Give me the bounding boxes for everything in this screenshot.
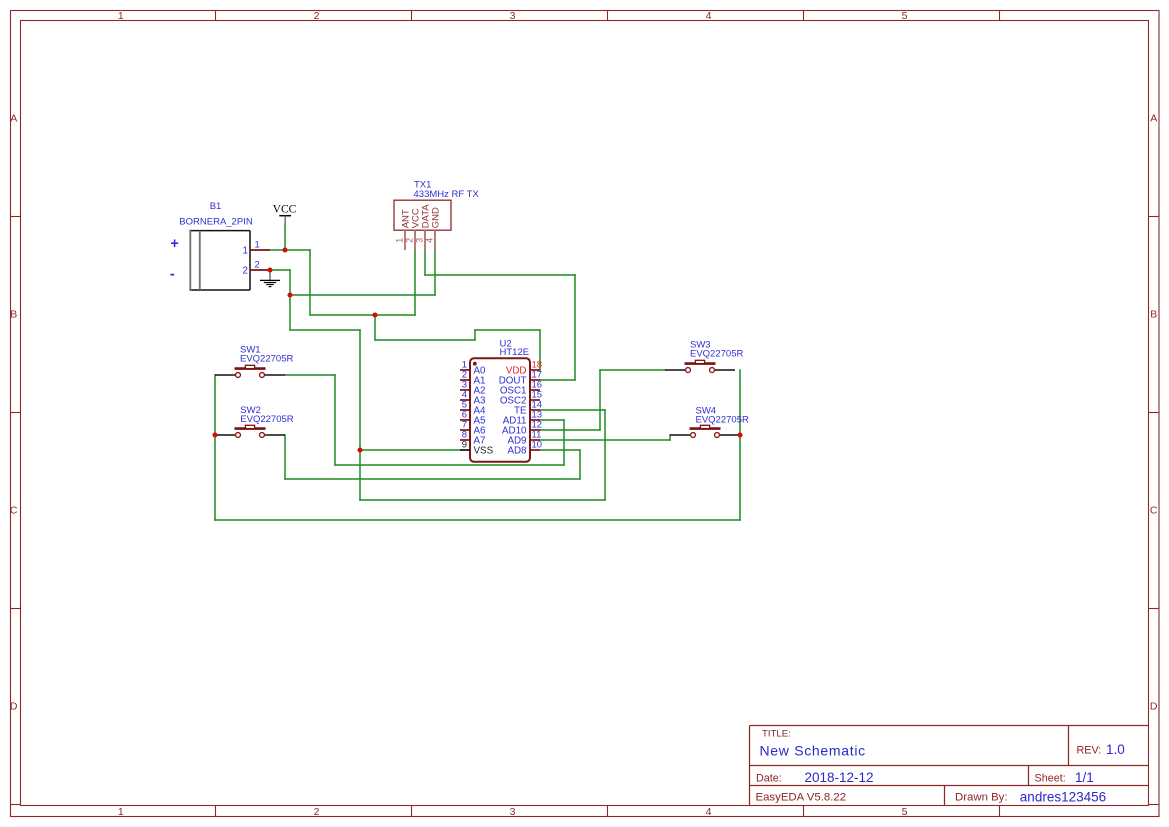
wire VCC net B1.1 to corner [270, 249, 310, 251]
svg-text:4: 4 [424, 238, 434, 243]
frame row tick left B|C [11, 412, 21, 414]
svg-text:GND: GND [431, 207, 442, 228]
svg-text:B: B [10, 309, 17, 321]
frame column tick bottom 5|end [999, 806, 1001, 817]
switch SW1 body [215, 365, 285, 377]
svg-text:EVQ22705R: EVQ22705R [240, 414, 293, 425]
IC U2 pin 11 stub [530, 439, 540, 441]
svg-text:3: 3 [510, 10, 516, 22]
svg-text:1.0: 1.0 [1106, 742, 1125, 757]
title block outline [750, 726, 1149, 807]
wire DATA net vertical x575 [574, 275, 576, 380]
svg-text:New Schematic: New Schematic [760, 743, 866, 759]
module TX1 pin 2 stub (VCC) [414, 230, 416, 250]
title block DrawnBy divider [944, 786, 946, 807]
frame column tick top 4|5 [803, 11, 805, 21]
wire SW3 net to U2.AD10 [540, 429, 600, 431]
svg-text:EasyEDA V5.8.22: EasyEDA V5.8.22 [756, 791, 847, 803]
frame column tick top 2|3 [411, 11, 413, 21]
wire DATA net drop from TX1.DATA [424, 250, 426, 275]
connector B1 body [189, 230, 250, 291]
IC U2 pin 17 stub [530, 379, 540, 381]
title block Sheet divider [1028, 766, 1030, 786]
IC U2 pin 3 stub [460, 389, 470, 391]
svg-text:C: C [10, 505, 18, 517]
module TX1 pin 1 stub (ANT) [404, 230, 406, 250]
wire GND branch to U2.TE [540, 409, 605, 411]
svg-text:5: 5 [902, 10, 908, 22]
frame row tick right A|B [1148, 216, 1159, 218]
wire DATA net to U2.DOUT [540, 379, 575, 381]
svg-text:2: 2 [255, 259, 260, 270]
IC U2 pin 13 stub [530, 419, 540, 421]
wire common net vertical x740 [739, 370, 741, 520]
frame column tick bottom 1|2 [215, 806, 217, 817]
wire SW2 net riser x580 [579, 450, 581, 479]
wire SW4 net jog up [669, 435, 671, 440]
wire VCC net vertical drop [309, 250, 311, 315]
wire SW1 net to U2.AD11 [540, 419, 564, 421]
svg-text:D: D [10, 701, 18, 713]
wire VCC symbol lead [284, 225, 286, 250]
wire SW1 net vertical x335 [334, 375, 336, 465]
IC U2 pin 10 stub [530, 449, 540, 451]
IC U2 pin 12 stub [530, 429, 540, 431]
junction SW2 left [212, 432, 217, 437]
wire GND net B1.2 to corner [270, 269, 290, 271]
junction at B1.2 ground [267, 267, 272, 272]
svg-text:BORNERA_2PIN: BORNERA_2PIN [179, 217, 253, 228]
svg-text:REV:: REV: [1077, 745, 1102, 757]
power flag VCC bar [279, 215, 291, 217]
wire GND branch horizontal to x360 [290, 329, 360, 331]
wire SW2 net horizontal y479 [285, 478, 580, 480]
junction at B1.1 VCC [282, 247, 287, 252]
frame row tick left A|B [11, 216, 21, 218]
svg-text:3: 3 [510, 806, 516, 818]
frame column tick bottom 4|5 [803, 806, 805, 817]
svg-text:VCC: VCC [273, 204, 297, 216]
svg-text:2: 2 [314, 806, 320, 818]
svg-text:EVQ22705R: EVQ22705R [690, 349, 743, 360]
svg-text:3: 3 [414, 238, 424, 243]
svg-text:2: 2 [314, 10, 320, 22]
IC U2 pin 15 stub [530, 399, 540, 401]
svg-text:2: 2 [243, 265, 248, 276]
IC U2 pin 2 stub [460, 379, 470, 381]
IC U2 pin 4 stub [460, 399, 470, 401]
title block REV divider [1068, 726, 1070, 766]
svg-text:HT12E: HT12E [500, 347, 530, 358]
wire VCC branch drop at x375 [374, 315, 376, 340]
svg-text:B: B [1150, 309, 1157, 321]
svg-text:EVQ22705R: EVQ22705R [240, 354, 293, 365]
wire VCC net horizontal run [310, 314, 415, 316]
IC U2 pin 18 stub [530, 369, 540, 371]
svg-text:2: 2 [404, 238, 414, 243]
svg-text:AD8: AD8 [507, 445, 527, 456]
junction SW4 right [737, 432, 742, 437]
IC U2 body [470, 358, 530, 462]
svg-text:andres123456: andres123456 [1020, 789, 1106, 804]
module TX1 pin 3 stub (DATA) [424, 230, 426, 250]
wire SW1 net horizontal y465 [335, 464, 564, 466]
svg-text:4: 4 [706, 10, 712, 22]
svg-text:VSS: VSS [474, 445, 494, 456]
wire SW4 net from U2.AD9 [540, 439, 670, 441]
wire VCC branch horizontal to x540 [475, 329, 540, 331]
svg-text:5: 5 [902, 806, 908, 818]
svg-text:4: 4 [706, 806, 712, 818]
svg-text:433MHz RF TX: 433MHz RF TX [414, 189, 480, 200]
ground symbol at B1.2 [269, 271, 271, 281]
power flag VCC stem [284, 216, 286, 226]
IC U2 pin1 indicator dot [473, 362, 477, 366]
connector B1 pin 2 stub [250, 269, 270, 271]
wire common net horizontal y520 [215, 519, 740, 521]
svg-text:A: A [1150, 113, 1157, 125]
wire GND branch horizontal y500 [360, 499, 605, 501]
frame row tick right D|end [1148, 804, 1159, 806]
IC U2 pin 9 stub (VSS) [460, 449, 470, 451]
wire GND branch riser x605 [604, 410, 606, 500]
svg-text:2018-12-12: 2018-12-12 [805, 770, 874, 785]
svg-text:+: + [170, 236, 178, 252]
svg-text:1: 1 [243, 245, 248, 256]
frame row tick right C|D [1148, 608, 1159, 610]
svg-text:9: 9 [462, 439, 467, 450]
wire SW2 net to U2.AD8 [540, 449, 580, 451]
wire GND branch to U2.VSS [360, 449, 460, 451]
frame row tick left C|D [11, 608, 21, 610]
frame row tick left D|end [11, 804, 21, 806]
wire GND net vertical drop [289, 270, 291, 295]
svg-text:1: 1 [118, 806, 124, 818]
junction VSS branch [357, 447, 362, 452]
svg-text:A: A [10, 113, 17, 125]
junction GND net corner [287, 292, 292, 297]
IC U2 pin 1 stub [460, 369, 470, 371]
svg-text:D: D [1150, 701, 1158, 713]
frame column tick top 3|4 [607, 11, 609, 21]
wire SW3 net to corner x600 [600, 369, 665, 371]
wire VCC branch drop to U2.VDD [539, 330, 541, 370]
module TX1 pin 4 stub (GND) [434, 230, 436, 250]
svg-text:10: 10 [532, 439, 543, 450]
wire SW1 net riser x564 [563, 420, 565, 465]
wire common net vertical x215 [214, 375, 216, 520]
svg-text:1/1: 1/1 [1075, 770, 1094, 785]
wire VCC branch horizontal to x475 [375, 339, 475, 341]
frame column tick top 1|2 [215, 11, 217, 21]
IC U2 pin 8 stub [460, 439, 470, 441]
wire GND branch vertical x360 [359, 330, 361, 500]
wire SW2 net vertical x285 [284, 435, 286, 479]
switch SW2 body [215, 425, 285, 437]
wire VCC net riser to TX1.VCC [414, 250, 416, 315]
svg-text:C: C [1150, 505, 1158, 517]
svg-text:1: 1 [394, 238, 404, 243]
wire GND net riser to TX1.GND [434, 250, 436, 295]
switch SW3 body [665, 360, 735, 372]
IC U2 pin 5 stub [460, 409, 470, 411]
frame column tick bottom 3|4 [607, 806, 609, 817]
svg-text:B1: B1 [210, 201, 222, 212]
svg-text:-: - [170, 267, 175, 283]
wire DATA net horizontal y275 [425, 274, 575, 276]
svg-text:1: 1 [255, 239, 260, 250]
frame column tick bottom 2|3 [411, 806, 413, 817]
svg-text:TITLE:: TITLE: [762, 729, 791, 740]
wire VCC branch jog up [474, 330, 476, 340]
connector B1 pin 1 stub [250, 249, 270, 251]
switch SW4 body [670, 425, 740, 437]
module TX1 body [394, 200, 451, 230]
IC U2 pin 7 stub [460, 429, 470, 431]
svg-text:Drawn By:: Drawn By: [955, 791, 1008, 803]
wire SW3 net vertical x600 [599, 370, 601, 430]
wire GND net horizontal run [290, 294, 435, 296]
IC U2 pin 6 stub [460, 419, 470, 421]
frame column tick top 5|end [999, 11, 1001, 21]
frame row tick right B|C [1148, 412, 1159, 414]
wire SW1 to corner x335 [285, 374, 335, 376]
wire GND branch drop at x290 [289, 295, 291, 330]
svg-text:Date:: Date: [756, 773, 782, 785]
junction VCC branch [372, 312, 377, 317]
svg-text:EVQ22705R: EVQ22705R [696, 414, 749, 425]
IC U2 pin 14 stub [530, 409, 540, 411]
IC U2 pin 16 stub [530, 389, 540, 391]
svg-text:Sheet:: Sheet: [1035, 773, 1066, 785]
svg-text:1: 1 [118, 10, 124, 22]
